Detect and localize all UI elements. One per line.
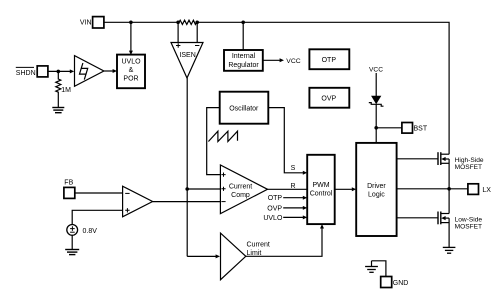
- wire diode to driver logic top: [375, 104, 377, 143]
- node SHDN/1M junction: [57, 70, 61, 74]
- node BST junction: [374, 126, 378, 130]
- svg-text:PWM: PWM: [312, 182, 329, 189]
- wire driver to LX: [397, 188, 468, 190]
- wire current limit to PWM bottom (arrow up): [246, 224, 324, 256]
- svg-text:MOSFET: MOSFET: [455, 224, 482, 231]
- svg-text:Control: Control: [310, 191, 333, 198]
- wire internal regulator top branch: [242, 22, 244, 50]
- svg-text:Internal: Internal: [232, 53, 256, 60]
- svg-text:FB: FB: [64, 179, 73, 186]
- pin BST: [376, 123, 428, 134]
- svg-text:Current: Current: [247, 241, 270, 248]
- svg-text:OTP: OTP: [322, 57, 337, 64]
- svg-text:Oscillator: Oscillator: [229, 106, 259, 113]
- wire ISEN branch to current comp +: [187, 188, 220, 190]
- block OTP: [309, 49, 349, 69]
- wire ISEN output down: [186, 78, 188, 256]
- node internal regulator branch: [241, 21, 245, 25]
- wire current comp to PWM R (arrow): [268, 183, 308, 190]
- svg-text:MOSFET: MOSFET: [455, 164, 482, 171]
- svg-text:VCC: VCC: [369, 66, 383, 73]
- wire high-side source to LX rail: [448, 159, 450, 214]
- svg-text:R: R: [290, 183, 295, 190]
- wire driver to low-side gate: [397, 217, 438, 219]
- signal OVP into PWM (arrow): [267, 205, 307, 212]
- block UVLO & POR: [117, 55, 145, 89]
- resistor sense (top rail): [179, 20, 197, 24]
- ground (below 1M): [52, 100, 64, 113]
- node LX junction: [447, 187, 451, 191]
- svg-text:Regulator: Regulator: [228, 62, 259, 69]
- svg-text:LX: LX: [482, 187, 491, 194]
- wire VCC to diode: [375, 73, 377, 97]
- svg-text:Low-Side: Low-Side: [455, 216, 483, 223]
- svg-text:S: S: [291, 165, 296, 172]
- transistor Q1 high-side MOSFET: [438, 152, 484, 171]
- wire ISEN to current limit (arrow): [187, 254, 220, 258]
- svg-text:POR: POR: [123, 75, 138, 82]
- pin VIN: [80, 17, 104, 28]
- pin FB: [64, 179, 75, 198]
- svg-text:Comp: Comp: [231, 192, 250, 199]
- svg-text:&: &: [129, 67, 134, 74]
- transistor Q2 low-side MOSFET: [438, 212, 482, 231]
- wire VIN to UVLO&POR (arrow down): [129, 22, 133, 55]
- wire low-side source to ground: [448, 218, 450, 247]
- wire comparator to UVLO&POR (arrow): [104, 69, 117, 73]
- wire oscillator ramp to current comp +: [207, 108, 221, 175]
- wire driver to high-side gate: [397, 158, 438, 160]
- block Internal Regulator: [224, 50, 263, 71]
- ground (below low-side MOSFET): [443, 247, 456, 253]
- comparator U1 (SHDN, hysteresis): [75, 56, 104, 87]
- svg-text:ISEN: ISEN: [179, 52, 195, 59]
- svg-text:GND: GND: [393, 280, 409, 287]
- svg-text:VIN: VIN: [80, 20, 92, 27]
- signal OTP into PWM (arrow): [268, 195, 307, 202]
- node VIN/UVLO junction: [129, 21, 133, 25]
- block OVP: [309, 88, 349, 108]
- block PWM Control: [307, 155, 335, 224]
- svg-text:OVP: OVP: [321, 95, 336, 102]
- svg-text:0.8V: 0.8V: [83, 228, 98, 235]
- svg-text:1M: 1M: [61, 87, 71, 94]
- wire top rail right + high-side drain rail: [197, 22, 450, 154]
- svg-text:UVLO: UVLO: [121, 59, 141, 66]
- wire internal regulator to VCC (arrow): [263, 58, 301, 65]
- svg-text:OVP: OVP: [267, 205, 282, 212]
- op-amp ISEN: [171, 43, 203, 79]
- pin GND: [372, 261, 409, 288]
- op-amp current limit: [221, 233, 270, 280]
- svg-text:Driver: Driver: [367, 183, 386, 190]
- wire SHDN to comparator: [48, 69, 74, 73]
- svg-text:VCC: VCC: [286, 58, 300, 65]
- ground (below 0.8V): [65, 235, 79, 254]
- wire sense resistor left to ISEN+: [177, 22, 179, 42]
- op-amp error amplifier: [123, 186, 153, 217]
- wire oscillator to PWM S (arrow): [268, 108, 307, 175]
- svg-text:High-Side: High-Side: [455, 157, 484, 164]
- signal UVLO into PWM (arrow): [263, 215, 307, 222]
- sawtooth waveform: [208, 131, 237, 141]
- op-amp current comparator: [220, 165, 267, 214]
- node ISEN to current comp: [185, 187, 189, 191]
- svg-text:SHDN: SHDN: [16, 70, 36, 77]
- wire sense resistor right to ISEN-: [196, 22, 198, 42]
- svg-text:Current: Current: [229, 183, 252, 190]
- wire error amp output to current comp -: [153, 201, 221, 203]
- pin SHDN: [16, 66, 48, 77]
- wire FB to error amp -: [75, 192, 123, 194]
- ground (GND pin): [365, 261, 378, 273]
- svg-text:OTP: OTP: [268, 195, 283, 202]
- diode D1 (schottky bootstrap): [369, 96, 384, 106]
- node sense resistor left: [176, 21, 180, 25]
- block Oscillator: [220, 92, 269, 124]
- resistor R1 1M: [56, 71, 71, 99]
- block Driver Logic: [356, 143, 396, 236]
- wire VIN top rail: [104, 21, 179, 23]
- node sense resistor right: [195, 21, 199, 25]
- svg-text:Logic: Logic: [368, 191, 385, 198]
- svg-text:BST: BST: [414, 126, 428, 133]
- pin LX: [468, 184, 491, 195]
- svg-text:UVLO: UVLO: [263, 215, 283, 222]
- wire error amp + to 0.8V: [72, 210, 122, 224]
- wire PWM to Driver Logic (arrow): [335, 187, 357, 191]
- source V1 0.8V: [67, 225, 97, 236]
